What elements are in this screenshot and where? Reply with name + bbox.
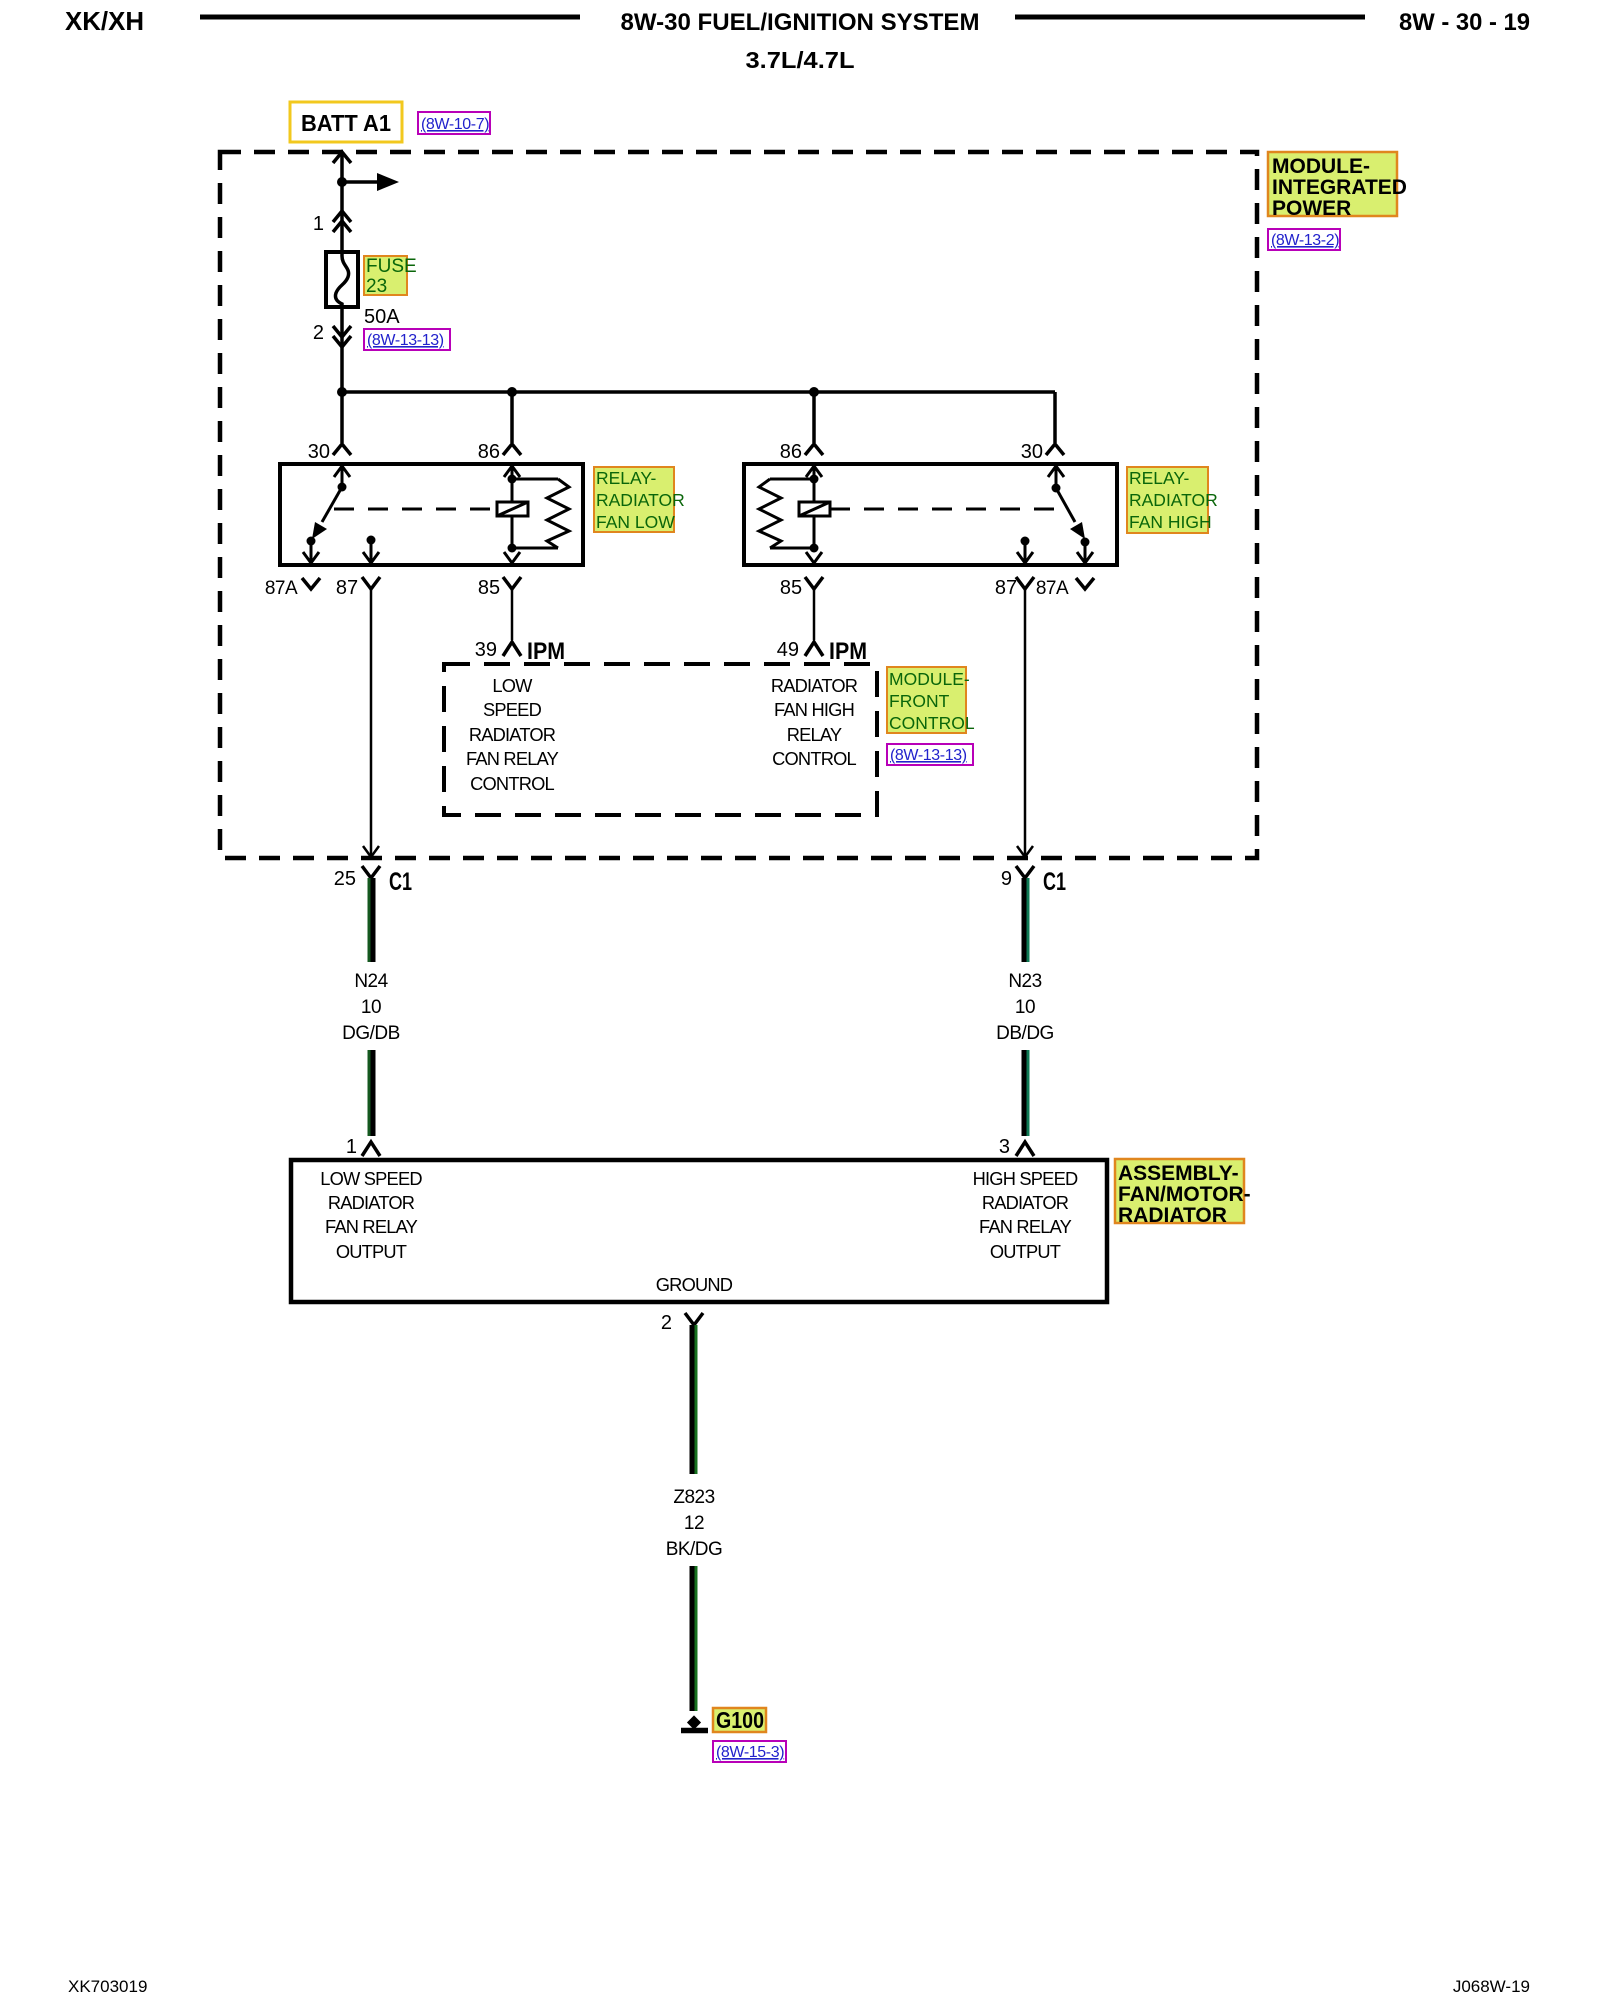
pin 39 IPM connector xyxy=(475,638,565,665)
wire label N23 10 DB/DG xyxy=(996,971,1054,1044)
svg-text:87: 87 xyxy=(995,577,1017,599)
page link (8W-13-2) xyxy=(1268,229,1340,250)
svg-text:RELAY-: RELAY- xyxy=(1129,468,1189,488)
svg-text:INTEGRATED: INTEGRATED xyxy=(1272,176,1407,199)
coil resistance left relay xyxy=(512,479,569,548)
pin 87A right relay connector xyxy=(1036,578,1094,599)
pin 87 left relay connector xyxy=(336,577,380,599)
svg-text:8W - 30 - 19: 8W - 30 - 19 xyxy=(1399,9,1530,36)
svg-text:(8W-10-7): (8W-10-7) xyxy=(421,116,489,133)
svg-text:2: 2 xyxy=(661,1312,672,1334)
pin 87A left relay connector xyxy=(265,578,320,599)
svg-text:85: 85 xyxy=(780,577,802,599)
node 87 contact left relay xyxy=(367,536,376,545)
svg-text:87A: 87A xyxy=(265,578,298,599)
wire Z823 upper segment xyxy=(692,1325,696,1474)
svg-text:RADIATOR: RADIATOR xyxy=(982,1192,1069,1213)
relay radiator fan low box xyxy=(280,464,583,565)
pin 3 fan assembly connector xyxy=(999,1136,1034,1158)
relay actuator box left relay xyxy=(497,502,528,516)
wire from BATT A1 into IPM xyxy=(333,152,351,393)
svg-text:LOW: LOW xyxy=(492,675,533,696)
node BATT A1 xyxy=(290,102,402,142)
pin 30 right relay connector xyxy=(1021,441,1064,463)
module front control dashed box xyxy=(444,664,877,815)
wire branch arrow to right xyxy=(342,173,399,191)
wire drop to pin 86 left relay xyxy=(510,392,514,443)
svg-text:2: 2 xyxy=(313,322,324,344)
node coil top left relay xyxy=(508,475,517,484)
pin 2 ground connector xyxy=(661,1312,703,1334)
dashed actuator link right relay xyxy=(830,508,1058,511)
pin 85 right relay connector xyxy=(780,577,823,599)
svg-text:OUTPUT: OUTPUT xyxy=(336,1241,407,1262)
svg-text:8W-30 FUEL/IGNITION SYSTEM: 8W-30 FUEL/IGNITION SYSTEM xyxy=(621,9,980,36)
svg-text:DB/DG: DB/DG xyxy=(996,1023,1054,1044)
svg-text:86: 86 xyxy=(478,441,500,463)
page link (8W-13-13) xyxy=(364,329,450,350)
wire N23 lower segment xyxy=(1024,1050,1028,1136)
text radiator fan high relay control xyxy=(771,675,858,769)
node coil bottom left relay xyxy=(508,544,517,553)
page link (8W-13-13) front control xyxy=(887,744,973,765)
footer doc number XK703019 xyxy=(68,1977,147,1996)
connector C1 pin 9 xyxy=(1001,866,1066,896)
header rule left xyxy=(200,15,580,20)
page link (8W-15-3) xyxy=(713,1741,786,1762)
node 87A contact left relay xyxy=(307,537,316,546)
label RELAY-RADIATOR FAN HIGH xyxy=(1127,467,1218,533)
svg-text:N24: N24 xyxy=(354,971,388,992)
header page number 8W - 30 - 19 xyxy=(1399,9,1530,36)
wire N24 upper segment xyxy=(369,878,373,962)
wire 85 terminal left relay xyxy=(504,552,520,563)
svg-text:OUTPUT: OUTPUT xyxy=(990,1241,1061,1262)
label RELAY-RADIATOR FAN LOW xyxy=(594,467,685,532)
wire 87 terminal left relay xyxy=(363,540,379,563)
wire 85 right to IPM pin 49 xyxy=(813,589,816,640)
svg-text:XK703019: XK703019 xyxy=(68,1977,147,1996)
header rule right xyxy=(1015,15,1365,20)
wire 87A terminal right relay xyxy=(1077,542,1093,563)
pin 49 IPM connector xyxy=(777,638,867,665)
svg-text:FAN HIGH: FAN HIGH xyxy=(1129,512,1212,532)
svg-text:10: 10 xyxy=(1015,997,1035,1018)
svg-text:RELAY: RELAY xyxy=(787,724,842,745)
wire Z823 lower segment xyxy=(692,1566,696,1711)
connector C1 pin 25 xyxy=(334,866,412,896)
relay radiator fan high box xyxy=(744,464,1117,565)
assembly fan/motor radiator box xyxy=(291,1160,1107,1302)
svg-text:MODULE-: MODULE- xyxy=(1272,155,1370,178)
svg-text:MODULE-: MODULE- xyxy=(889,669,970,689)
svg-text:CONTROL: CONTROL xyxy=(889,713,975,733)
svg-text:12: 12 xyxy=(684,1513,704,1534)
svg-text:G100: G100 xyxy=(716,1707,764,1733)
svg-text:RADIATOR: RADIATOR xyxy=(1118,1204,1227,1227)
svg-text:N23: N23 xyxy=(1008,971,1041,992)
svg-text:87: 87 xyxy=(336,577,358,599)
svg-text:CONTROL: CONTROL xyxy=(772,748,856,769)
svg-text:(8W-13-13): (8W-13-13) xyxy=(890,747,967,764)
svg-text:J068W-19: J068W-19 xyxy=(1453,1977,1530,1996)
node switch pivot left relay xyxy=(338,483,347,492)
node bus junction 86 right xyxy=(809,387,819,397)
svg-text:(8W-15-3): (8W-15-3) xyxy=(716,1744,784,1761)
svg-text:HIGH SPEED: HIGH SPEED xyxy=(973,1168,1078,1189)
text ground xyxy=(656,1274,733,1295)
svg-text:GROUND: GROUND xyxy=(656,1274,733,1295)
svg-text:25: 25 xyxy=(334,868,356,890)
svg-text:87A: 87A xyxy=(1036,578,1069,599)
node 87A contact right relay xyxy=(1081,538,1090,547)
svg-text:FAN RELAY: FAN RELAY xyxy=(466,748,559,769)
header subtitle 3.7L/4.7L xyxy=(746,47,855,73)
coil resistance right relay xyxy=(759,479,814,548)
node 87 contact right relay xyxy=(1021,537,1030,546)
pin 86 left relay connector xyxy=(478,441,521,463)
svg-text:1: 1 xyxy=(346,1136,357,1158)
node bus junction 86 left xyxy=(507,387,517,397)
svg-text:C1: C1 xyxy=(1043,868,1066,896)
svg-text:FAN RELAY: FAN RELAY xyxy=(325,1216,418,1237)
svg-text:BATT A1: BATT A1 xyxy=(301,110,391,136)
text low speed radiator fan relay output xyxy=(320,1168,422,1262)
pin 87 right relay connector xyxy=(995,577,1034,599)
svg-text:39: 39 xyxy=(475,639,497,661)
svg-text:FRONT: FRONT xyxy=(889,691,950,711)
label G100 xyxy=(713,1707,766,1733)
label ASSEMBLY-FAN/MOTOR-RADIATOR xyxy=(1115,1159,1251,1227)
svg-text:50A: 50A xyxy=(364,306,400,328)
svg-text:BK/DG: BK/DG xyxy=(666,1539,723,1560)
wire power bus horizontal xyxy=(342,390,1055,394)
svg-text:1: 1 xyxy=(313,213,324,235)
wire label N24 10 DG/DB xyxy=(342,971,400,1044)
header title 8W-30 FUEL/IGNITION SYSTEM xyxy=(621,9,980,36)
svg-text:30: 30 xyxy=(1021,441,1043,463)
wire 87 right down to C1 xyxy=(1017,589,1033,857)
svg-text:FAN HIGH: FAN HIGH xyxy=(774,699,854,720)
node coil bottom right relay xyxy=(810,544,819,553)
wire drop to pin 86 right relay xyxy=(812,392,816,443)
text high speed radiator fan relay output xyxy=(973,1168,1078,1262)
svg-text:POWER: POWER xyxy=(1272,197,1351,220)
svg-text:C1: C1 xyxy=(389,868,412,896)
svg-text:RELAY-: RELAY- xyxy=(596,468,656,488)
svg-text:DG/DB: DG/DB xyxy=(342,1023,400,1044)
wire 85 left to IPM pin 39 xyxy=(511,589,514,640)
wire 87 terminal right relay xyxy=(1017,541,1033,563)
wire N23 upper segment xyxy=(1024,878,1028,962)
svg-text:85: 85 xyxy=(478,577,500,599)
svg-text:10: 10 xyxy=(361,997,381,1018)
wire drop to pin 30 right relay xyxy=(1053,392,1057,443)
node coil top right relay xyxy=(810,475,819,484)
wire N24 lower segment xyxy=(369,1050,373,1136)
svg-text:86: 86 xyxy=(780,441,802,463)
node junction below BATT xyxy=(337,177,347,187)
coil terminal 86 left relay xyxy=(504,465,520,548)
svg-text:49: 49 xyxy=(777,639,799,661)
connector pin 1 of fuse xyxy=(313,211,351,235)
value label 50A xyxy=(364,306,400,328)
svg-text:FAN LOW: FAN LOW xyxy=(596,512,675,532)
module boundary - integrated power module dashed box xyxy=(220,152,1257,858)
node bus junction left xyxy=(337,387,347,397)
label MODULE-INTEGRATED POWER xyxy=(1268,152,1407,220)
svg-text:FAN/MOTOR-: FAN/MOTOR- xyxy=(1118,1183,1251,1206)
label MODULE-FRONT CONTROL xyxy=(887,667,975,733)
svg-text:23: 23 xyxy=(366,276,387,297)
svg-text:XK/XH: XK/XH xyxy=(65,6,144,36)
svg-text:SPEED: SPEED xyxy=(483,699,542,720)
pin 30 terminal inside left relay xyxy=(334,465,350,487)
text low speed radiator fan relay control xyxy=(466,675,559,794)
ground symbol G100 xyxy=(681,1715,708,1730)
svg-text:RADIATOR: RADIATOR xyxy=(328,1192,415,1213)
header title XK/XH xyxy=(65,6,144,36)
footer drawing number J068W-19 xyxy=(1453,1977,1530,1996)
svg-text:FUSE: FUSE xyxy=(366,256,417,277)
svg-text:(8W-13-13): (8W-13-13) xyxy=(367,332,444,349)
svg-text:RADIATOR: RADIATOR xyxy=(596,490,685,510)
relay actuator box right relay xyxy=(799,502,830,516)
wire 87A terminal left relay xyxy=(303,541,319,563)
wire drop to pin 30 left relay xyxy=(340,392,344,443)
fuse 23 symbol xyxy=(326,252,358,307)
svg-text:ASSEMBLY-: ASSEMBLY- xyxy=(1118,1162,1239,1185)
label FUSE 23 xyxy=(364,256,417,297)
pin 30 left relay connector xyxy=(308,441,351,463)
wire 87 left down to C1 xyxy=(363,589,379,857)
dashed actuator link left relay xyxy=(334,508,497,511)
svg-text:3.7L/4.7L: 3.7L/4.7L xyxy=(746,47,855,73)
pin 30 terminal inside right relay xyxy=(1048,465,1064,488)
page link (8W-10-7) xyxy=(418,112,490,134)
connector pin 2 of fuse xyxy=(313,322,351,347)
switch blade left relay xyxy=(312,487,342,539)
svg-text:9: 9 xyxy=(1001,868,1012,890)
wire 85 terminal right relay xyxy=(806,552,822,563)
svg-text:(8W-13-2): (8W-13-2) xyxy=(1271,232,1339,249)
coil terminal 86 right relay xyxy=(806,465,822,548)
svg-text:Z823: Z823 xyxy=(673,1487,714,1508)
svg-text:IPM: IPM xyxy=(527,638,565,665)
svg-text:3: 3 xyxy=(999,1136,1010,1158)
node switch pivot right relay xyxy=(1052,484,1061,493)
svg-text:30: 30 xyxy=(308,441,330,463)
svg-text:LOW SPEED: LOW SPEED xyxy=(320,1168,422,1189)
pin 1 fan assembly connector xyxy=(346,1136,380,1158)
svg-text:RADIATOR: RADIATOR xyxy=(1129,490,1218,510)
svg-text:RADIATOR: RADIATOR xyxy=(771,675,858,696)
pin 85 left relay connector xyxy=(478,577,521,599)
svg-text:FAN RELAY: FAN RELAY xyxy=(979,1216,1072,1237)
svg-text:IPM: IPM xyxy=(829,638,867,665)
wire label Z823 12 BK/DG xyxy=(666,1487,723,1560)
pin 86 right relay connector xyxy=(780,441,823,463)
switch blade right relay xyxy=(1056,488,1085,539)
svg-text:RADIATOR: RADIATOR xyxy=(469,724,556,745)
svg-text:CONTROL: CONTROL xyxy=(470,773,554,794)
